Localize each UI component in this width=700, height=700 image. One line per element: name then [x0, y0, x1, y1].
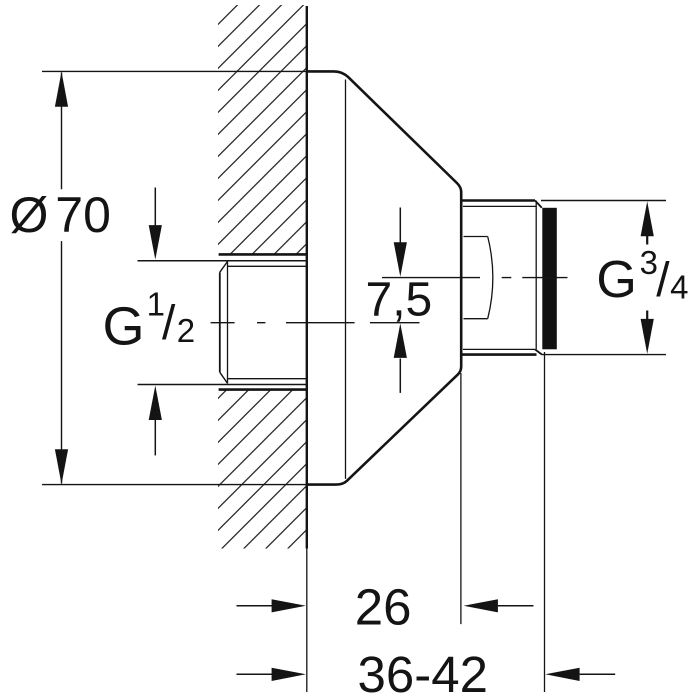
gasket extension line — [544, 352, 546, 692]
G1/2 thread crest bottom + dim tick — [138, 384, 307, 386]
svg-text:26: 26 — [355, 578, 412, 635]
36-42 dim arrow left — [237, 668, 306, 681]
label Ø 70 — [10, 187, 111, 243]
label G 1/2 — [103, 286, 196, 357]
dim line Ø70 bottom — [42, 484, 307, 486]
G1/2 thread chamfer edge — [227, 262, 229, 384]
G1/2 dim arrow lower — [149, 386, 162, 456]
G3/4 nut bottom edge — [461, 353, 536, 356]
G3/4 nut bottom bevel — [535, 349, 542, 354]
svg-text:G: G — [103, 297, 145, 357]
dim line G3/4 top — [541, 200, 666, 202]
nut inner socket — [464, 237, 493, 319]
flange front face edge — [345, 80, 347, 479]
G1/2 thread end face — [219, 272, 221, 372]
G1/2 dim arrow upper — [149, 188, 162, 260]
svg-text:Ø 70: Ø 70 — [10, 187, 111, 243]
dim line Ø70 vertical — [61, 73, 63, 484]
G3/4 nut top inner line — [463, 205, 536, 207]
G1/2 thread root bottom — [228, 378, 307, 380]
svg-text:/: / — [656, 254, 670, 307]
G3/4 nut top bevel — [535, 201, 542, 208]
label 26 — [355, 578, 412, 635]
wall hole edge bottom — [219, 388, 307, 391]
wall face line — [306, 6, 308, 549]
label 7,5 — [366, 274, 433, 327]
G3/4 arrow down — [641, 311, 654, 354]
26 dim arrow left — [237, 599, 306, 612]
7,5 dim arrow upper — [394, 208, 407, 277]
svg-text:/: / — [162, 297, 176, 350]
7,5 dim arrow lower — [394, 323, 407, 393]
Ø70 arrow up — [55, 72, 68, 107]
wall hole edge top — [219, 253, 307, 256]
G1/2 thread crest top + dim tick — [138, 260, 307, 262]
label 36-42 — [358, 646, 488, 700]
svg-text:4: 4 — [670, 268, 688, 305]
wall hatching — [218, 5, 307, 549]
G1/2 thread root top — [228, 265, 307, 267]
G3/4 nut top edge — [461, 199, 535, 202]
dim line Ø70 top — [42, 70, 307, 72]
nozzle centerline — [382, 277, 568, 279]
gasket (black seal ring) — [542, 208, 557, 349]
26 dim arrow right — [464, 599, 534, 612]
G1/2 thread chamfer top — [220, 262, 228, 273]
nut face extension line — [460, 373, 462, 624]
svg-text:3: 3 — [640, 244, 658, 281]
svg-text:7,5: 7,5 — [366, 274, 433, 327]
svg-text:36-42: 36-42 — [358, 646, 488, 700]
36-42 dim arrow right — [545, 668, 615, 681]
G3/4 nut bottom inner line — [463, 348, 535, 350]
label G 3/4 — [596, 244, 688, 309]
wall face extension line — [306, 549, 308, 693]
union body outline: flange, cone, step face — [307, 71, 461, 484]
svg-text:G: G — [596, 251, 636, 309]
G3/4 arrow up — [641, 201, 654, 244]
thread centerline — [211, 322, 420, 324]
G3/4 nut face edge — [535, 201, 537, 350]
G1/2 thread chamfer bottom — [220, 372, 228, 383]
svg-text:2: 2 — [177, 312, 195, 349]
dim line G3/4 bottom — [542, 354, 666, 356]
Ø70 arrow down — [55, 449, 68, 484]
